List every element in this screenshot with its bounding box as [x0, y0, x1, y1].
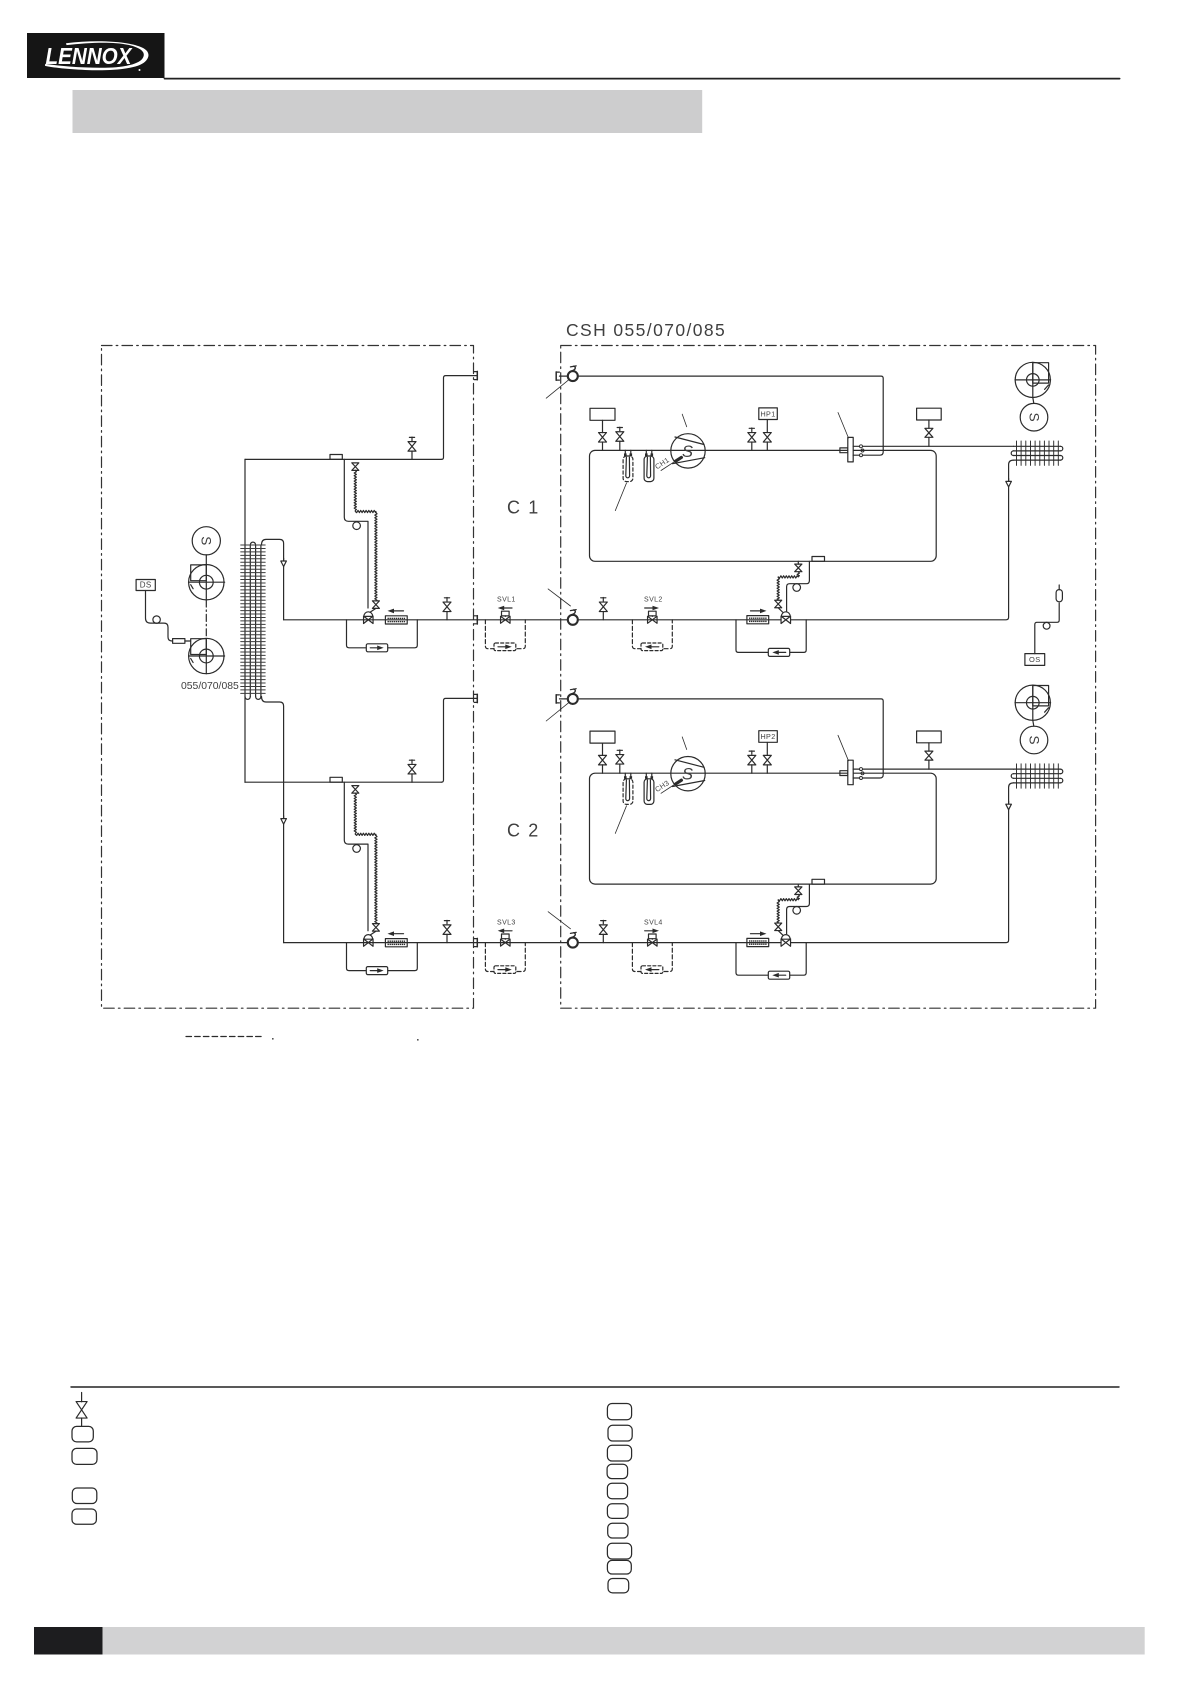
filter drier C1 — [747, 616, 769, 624]
leader to compressor C1 — [682, 414, 687, 427]
leader to reversing valve C1 — [838, 413, 849, 439]
OS grommet — [1043, 622, 1050, 629]
svg-text:055/070/085: 055/070/085 — [181, 681, 239, 692]
condenser coil C1 — [1011, 441, 1063, 465]
capillary tube C1 — [354, 470, 377, 601]
flow arrow over drier C2 — [751, 931, 767, 936]
dashed bypass C1 — [632, 620, 672, 649]
capillary schrader valve C2 — [352, 786, 359, 794]
TXV equalizer line C2 — [344, 782, 368, 931]
suction accumulator (dashed) C2 — [623, 773, 633, 804]
pipe coupling at enclosure edge (liquid C2) — [474, 938, 477, 946]
check valve bypass C2 — [736, 943, 806, 976]
header rule — [165, 78, 1120, 80]
dashed bypass C2 — [632, 943, 672, 972]
suction muffler C1 — [644, 450, 654, 481]
HP switch valve C2 — [763, 743, 771, 774]
pipe coupling suction C1 — [556, 372, 559, 380]
svg-text:SVL4: SVL4 — [644, 920, 663, 927]
OS sensor pocket — [1056, 585, 1062, 602]
legend key box R6 — [607, 1504, 628, 1519]
distributor feed C1 — [262, 539, 284, 619]
evaporator coil — [241, 459, 266, 782]
OS oil sensor box — [1025, 654, 1045, 666]
service valve on suction C2 — [408, 760, 416, 782]
injection schrader C2 — [795, 884, 802, 894]
svg-text:C 2: C 2 — [507, 821, 540, 841]
equalizer tab C1 — [330, 455, 342, 460]
legend key box R1 — [607, 1404, 631, 1420]
TXV equalizer line C1 — [344, 459, 368, 608]
flow arrow over drier C2 — [388, 931, 404, 936]
dashed check valve C2 — [494, 966, 516, 974]
suction ball valve C1 — [568, 366, 578, 381]
check valve C2 — [366, 967, 387, 975]
leader to accumulator C2 — [615, 806, 626, 834]
condenser fan C1 — [1015, 362, 1051, 397]
flow arrow over drier C1 — [388, 609, 404, 614]
injection schrader C1 — [795, 561, 802, 571]
capillary schrader valve C1 — [352, 463, 359, 471]
schrader valve B C2 — [616, 750, 624, 773]
wire: suction line C2 (evaporator to header) — [245, 698, 477, 782]
sensor grommet — [153, 616, 160, 623]
legend key box R8 — [607, 1543, 631, 1559]
check valve bypass loop C1 — [347, 620, 418, 648]
condenser fan C2 — [1015, 685, 1051, 720]
TXV sensing bulb C1 — [353, 522, 361, 530]
Lennox logo — [27, 33, 165, 78]
gauge port box C1 — [590, 408, 615, 432]
liquid line check symbol C2 — [1006, 801, 1012, 809]
refrigerant distributor C1 — [281, 558, 287, 566]
check valve C2 — [768, 971, 789, 979]
legend key box R2 — [608, 1425, 632, 1441]
schrader valve A C1 — [599, 433, 607, 451]
svg-text:HP2: HP2 — [760, 732, 775, 741]
service valve on liquid C2 — [443, 920, 451, 942]
svg-text:LENNOX: LENNOX — [46, 43, 133, 69]
svg-text:DS: DS — [140, 581, 152, 590]
injection capillary C2 — [777, 895, 799, 923]
schrader valve A C2 — [599, 755, 607, 773]
legend key box L1 — [72, 1426, 93, 1442]
wire: suction pipe to reversing valve C2 — [560, 699, 884, 769]
capillary lower valve C2 — [370, 924, 379, 935]
wire fuse element — [173, 639, 185, 644]
pipe coupling at enclosure edge (suction C1) — [474, 371, 477, 379]
compressor C2 — [671, 757, 705, 791]
leader to liquid valve C1 — [548, 589, 570, 606]
solenoid valve SVL3 — [497, 920, 516, 947]
filter drier C1 — [385, 616, 407, 624]
pipe coupling at enclosure edge (liquid C1) — [474, 616, 477, 624]
injection line C1 — [787, 561, 810, 611]
indoor unit dash-dot enclosure — [102, 346, 474, 1009]
condenser fan motor C1 — [1020, 398, 1048, 432]
OS sensor wire — [1035, 603, 1059, 654]
dashed bypass C1 — [485, 620, 525, 649]
service valve on liquid C1 — [443, 598, 451, 620]
filter drier C2 — [747, 938, 769, 946]
check valve bypass C1 — [736, 620, 806, 653]
wire: liquid line inside unit C1 — [578, 619, 781, 621]
discharge service box C1 — [917, 408, 942, 428]
footer page block — [34, 1627, 103, 1655]
svg-text:OS: OS — [1029, 655, 1041, 664]
liquid schrader C2 — [599, 920, 607, 942]
oil return tab C1 — [812, 557, 825, 562]
leader to reversing valve C2 — [838, 735, 849, 761]
discharge valve C1 — [925, 428, 933, 446]
legend key box L3 — [72, 1488, 97, 1504]
wire: liquid line C2 — [284, 942, 477, 944]
leader to accumulator C1 — [615, 483, 626, 511]
solenoid valve SVL1 — [497, 597, 516, 624]
suction muffler C2 — [644, 773, 654, 804]
legend key box R3 — [607, 1445, 631, 1461]
crankcase heater CH3 — [653, 778, 683, 794]
blower fan 2 (indoor) — [189, 638, 225, 673]
legend key box R10 — [608, 1579, 629, 1593]
condenser coil C2 — [1011, 764, 1063, 788]
pipe coupling suction C2 — [556, 695, 559, 703]
compressor C1 — [671, 434, 705, 468]
liquid schrader C1 — [599, 598, 607, 620]
check valve C1 — [768, 648, 789, 656]
liquid ball valve C2 — [568, 932, 578, 947]
schrader valve C C2 — [748, 751, 756, 773]
thermostatic expansion valve C1 — [364, 612, 374, 624]
filter drier C2 — [385, 939, 407, 947]
legend key box R9 — [607, 1560, 631, 1574]
injection bulb C1 — [793, 584, 801, 592]
expansion valve C1 — [781, 612, 791, 624]
svg-text:S: S — [682, 766, 693, 784]
4-way reversing valve C1 — [840, 437, 1014, 462]
injection bulb C2 — [793, 907, 801, 915]
blower fan 1 (indoor) — [189, 565, 225, 600]
suction ball valve C2 — [568, 689, 578, 704]
svg-text:SVL2: SVL2 — [644, 597, 663, 604]
compressor suction loop C1 — [590, 450, 937, 561]
oil return tab C2 — [812, 879, 825, 884]
svg-text:SVL1: SVL1 — [497, 597, 516, 604]
wire: interconnecting liquid line C2 — [477, 942, 568, 944]
wire: suction pipe to reversing valve C1 — [560, 376, 884, 446]
4-way reversing valve C2 — [840, 760, 1014, 785]
dashed check valve C2 — [641, 966, 663, 974]
condenser fan motor C2 — [1020, 720, 1048, 754]
capillary lower valve C1 — [370, 601, 379, 612]
pipe coupling at enclosure edge (suction C2) — [474, 694, 477, 702]
legend key box R7 — [608, 1523, 628, 1538]
injection line C2 — [787, 884, 810, 934]
svg-text:S: S — [1026, 413, 1041, 422]
schrader valve C C1 — [748, 428, 756, 450]
crankcase heater CH1 — [653, 455, 683, 471]
leader to suction valve C1 — [546, 380, 569, 399]
svg-text:S: S — [1026, 735, 1041, 744]
compressor suction loop C2 — [590, 773, 937, 884]
check valve C1 — [366, 644, 387, 652]
TXV sensing bulb C2 — [353, 845, 361, 853]
flow arrow over drier C1 — [751, 609, 767, 614]
legend dashed line sample — [186, 1037, 419, 1041]
DS sensor wire — [146, 591, 191, 642]
refrigerant distributor C2 — [281, 816, 287, 824]
solenoid valve SVL2 — [644, 597, 663, 624]
legend key box R5 — [607, 1483, 627, 1499]
suction accumulator (dashed) C1 — [623, 450, 633, 481]
legend valve symbol — [76, 1393, 87, 1427]
schrader valve B C1 — [616, 427, 624, 450]
leader to compressor C2 — [682, 737, 687, 750]
dashed bypass C2 — [485, 943, 525, 972]
svg-text:CSH 055/070/085: CSH 055/070/085 — [566, 320, 726, 340]
thermostatic expansion valve C2 — [364, 935, 374, 947]
fan axis centerline — [205, 600, 207, 639]
svg-text:S: S — [682, 443, 693, 461]
footer bar — [103, 1627, 1145, 1655]
legend key box L2 — [72, 1448, 97, 1464]
svg-text:SVL3: SVL3 — [497, 920, 516, 927]
svg-text:C 1: C 1 — [507, 498, 540, 518]
service valve on suction C1 — [408, 437, 416, 459]
HP pressure switch HP1 — [759, 408, 778, 420]
gauge port box C2 — [590, 731, 615, 755]
check valve bypass loop C2 — [347, 943, 418, 971]
liquid line check symbol C1 — [1006, 479, 1012, 487]
discharge service box C2 — [917, 731, 942, 751]
discharge valve C2 — [925, 751, 933, 769]
HP pressure switch HP2 — [759, 731, 778, 743]
wire: liquid drop from condenser C2 — [791, 783, 1014, 943]
wire: suction line C1 (evaporator to header) — [245, 376, 477, 460]
DS defrost sensor box — [136, 580, 155, 591]
distributor feed C2 — [262, 697, 284, 943]
legend key box R4 — [607, 1464, 628, 1478]
wire: liquid drop from condenser C1 — [791, 460, 1014, 620]
leader to suction valve C2 — [546, 702, 569, 721]
leader to liquid valve C2 — [548, 912, 570, 929]
CSH condensing unit dash-dot enclosure — [561, 346, 1096, 1009]
wire: liquid line C1 — [284, 619, 477, 621]
wire: interconnecting liquid line C1 — [477, 619, 568, 621]
svg-text:HP1: HP1 — [760, 409, 775, 418]
injection valve C1 — [775, 600, 783, 612]
HP switch valve C1 — [763, 420, 771, 451]
expansion valve C2 — [781, 935, 791, 947]
injection capillary C1 — [777, 572, 799, 600]
svg-text:S: S — [199, 536, 214, 545]
title bar — [73, 90, 703, 133]
dashed check valve C1 — [494, 643, 516, 651]
fan motor S (indoor) — [192, 527, 220, 565]
injection valve C2 — [775, 923, 783, 935]
wire: liquid line inside unit C2 — [578, 942, 781, 944]
equalizer tab C2 — [330, 777, 342, 782]
liquid ball valve C1 — [568, 610, 578, 625]
dashed check valve C1 — [641, 643, 663, 651]
legend key box L4 — [72, 1509, 96, 1524]
solenoid valve SVL4 — [644, 920, 663, 947]
legend rule — [71, 1386, 1119, 1388]
capillary tube C2 — [354, 793, 377, 924]
